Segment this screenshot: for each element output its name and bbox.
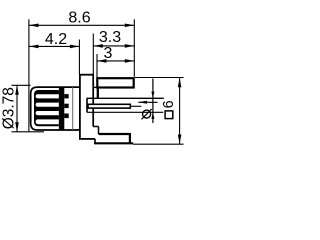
pin diameter leader arrow (138, 101, 147, 104)
square symbol (165, 111, 173, 119)
dimension 3.3 left arrow (93, 44, 103, 48)
body left edge (79, 75, 81, 139)
dimension 3.3 line (93, 45, 134, 47)
body right edge (92, 75, 94, 127)
slot top line (long) (87, 97, 164, 99)
dimension 6 bottom arrow (178, 135, 182, 145)
bottom leg bottom edge (94, 142, 133, 144)
bottom leg right end (129, 133, 131, 143)
barrel grooved section (black mass) (34, 90, 59, 126)
diameter symbol circle (143, 110, 151, 118)
dimension 6 top arrow (178, 78, 182, 88)
extension line 6 top (135, 77, 184, 79)
dimension 3 left arrow (97, 59, 107, 63)
collar tooth 2 (64, 104, 68, 108)
step under top leg (93, 86, 99, 88)
svg-text:3: 3 (104, 45, 113, 62)
svg-text:3.3: 3.3 (99, 29, 121, 46)
dimension dia3.78 bottom arrow (15, 122, 19, 132)
pin diameter leader line (138, 101, 157, 103)
dimension 8.6 line (29, 24, 134, 26)
bottom leg top edge (99, 133, 131, 135)
dimension 4.2 left arrow (29, 45, 39, 49)
extension line for 3 (slot left face) (96, 54, 98, 87)
body lower step vertical (98, 127, 100, 135)
dimension dia3.78 vertical line (16, 85, 18, 132)
dimension 3.3 right arrow (125, 44, 135, 48)
extension line for 4.2 (body left edge, above body) (78, 40, 80, 75)
svg-text:4.2: 4.2 (45, 31, 67, 48)
barrel collar (vertical bar) (59, 87, 64, 130)
body top edge (79, 74, 94, 76)
body lower step horizontal (93, 126, 98, 128)
insulator face (86, 98, 88, 112)
collar tooth 3 (64, 114, 68, 119)
dimension 3 right arrow (125, 59, 135, 63)
small dimension shaft (152, 79, 154, 124)
pin centerline stub (131, 105, 141, 107)
groove gap 4 (white) (36, 119, 59, 124)
small dimension down arrow (151, 92, 154, 99)
collar tooth 1 (64, 94, 68, 98)
dimension 4.2 right arrow (70, 45, 80, 49)
dimension 3 line (97, 60, 134, 62)
body bottom step vertical (94, 139, 96, 143)
top leg foot vertical (97, 87, 99, 98)
dimension 8.6 left arrow (29, 24, 39, 28)
extension line dia3.78 top (12, 84, 31, 86)
svg-text:Ø3.78: Ø3.78 (0, 87, 17, 129)
barrel neck line (72, 87, 74, 130)
extension line dia3.78 bottom (12, 131, 45, 133)
dimension dia3.78 top arrow (15, 85, 19, 95)
extension line for 3.3 (body right face) (92, 34, 94, 75)
dimension 6 vertical line (179, 78, 181, 144)
top leg outline (97, 78, 133, 87)
diameter symbol slash (142, 109, 152, 119)
barrel outer contour (31, 87, 80, 130)
body bottom edge (79, 138, 95, 140)
insulator bottom (87, 111, 163, 113)
groove gap 3 (white) (36, 111, 59, 115)
svg-text:6: 6 (161, 100, 177, 108)
small dimension up arrow (151, 112, 154, 119)
groove gap 1 (white) (36, 94, 59, 98)
dimension 4.2 line (29, 45, 79, 47)
extension line left (barrel left end) (28, 19, 30, 131)
center pin outline (88, 104, 130, 108)
dimension 8.6 right arrow (125, 24, 135, 28)
extension line 6 bottom (133, 143, 184, 145)
groove gap 2 (white) (36, 103, 59, 107)
extension line right (leg right end, upper) (133, 19, 135, 77)
svg-text:8.6: 8.6 (68, 10, 90, 27)
